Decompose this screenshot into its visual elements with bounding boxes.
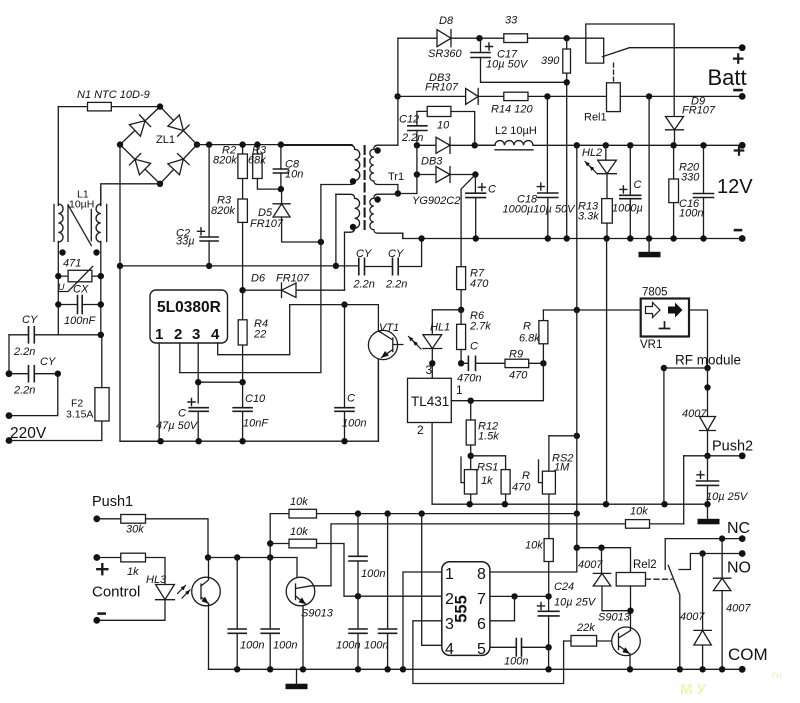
svg-text:CX: CX xyxy=(73,284,89,296)
wire 7805 input line y310 xyxy=(543,309,640,311)
LED HL1 xyxy=(432,310,461,364)
svg-text:1.5k: 1.5k xyxy=(478,431,499,443)
IC 555 box xyxy=(442,562,490,656)
svg-text:6: 6 xyxy=(477,616,486,633)
svg-text:ru: ru xyxy=(772,670,782,681)
node C100n rail xyxy=(341,438,347,444)
7805 gnd mark xyxy=(660,322,670,329)
node 390 top xyxy=(564,35,570,41)
wire S9013-2 emitter xyxy=(629,654,631,670)
svg-text:Rel2: Rel2 xyxy=(633,559,657,571)
node cap2 top xyxy=(267,554,273,560)
svg-text:470: 470 xyxy=(470,278,489,290)
node DB3 lower cathode xyxy=(472,171,478,177)
node pin1 rail xyxy=(157,438,163,444)
svg-text:4007: 4007 xyxy=(680,611,705,623)
inductor L1 left winding xyxy=(58,204,63,242)
svg-text:R9: R9 xyxy=(509,349,523,361)
wire Push2 line xyxy=(684,455,743,457)
capacitor 100n pin5 xyxy=(516,639,521,656)
transistor S9013 (first) xyxy=(286,577,315,606)
wire secondary top lead up to D8 xyxy=(397,38,399,145)
wire x577 to Rel2 branch xyxy=(576,514,578,548)
svg-text:FR107: FR107 xyxy=(276,273,310,285)
svg-text:Batt: Batt xyxy=(708,65,747,90)
diode D5 FR107 xyxy=(273,204,290,217)
svg-text:10: 10 xyxy=(437,120,450,132)
svg-text:C12: C12 xyxy=(399,114,419,126)
wire L1 right bottom down xyxy=(100,241,102,334)
wire Push2 riser to 10k xyxy=(683,456,685,524)
node R20 bottom xyxy=(670,235,676,241)
primary bottom lead xyxy=(321,181,355,185)
node cap3 gnd xyxy=(355,666,361,672)
svg-text:S9013: S9013 xyxy=(301,608,334,620)
svg-text:6.8k: 6.8k xyxy=(519,333,540,345)
wire 12V- rail xyxy=(403,233,422,238)
wire Rel1 arm to Batt+ xyxy=(602,48,742,57)
svg-text:C18: C18 xyxy=(517,194,538,206)
wire 10k line-2 y524 to S9013 collector xyxy=(331,524,626,586)
relay Rel1 contact assembly xyxy=(586,24,674,63)
wire 555 pin7 line xyxy=(491,595,549,597)
wire 555 pin5 line xyxy=(491,646,549,648)
svg-text:3.3k: 3.3k xyxy=(578,211,599,223)
capacitor 100n (no.1) xyxy=(236,558,238,670)
plus Batt xyxy=(734,54,742,62)
svg-text:68k: 68k xyxy=(248,155,266,167)
node R7 bottom xyxy=(458,307,464,313)
bridge diode bottom-right xyxy=(168,154,189,175)
node CY1 right on CX column xyxy=(98,332,104,338)
svg-text:1k: 1k xyxy=(127,566,139,578)
resistor 390 xyxy=(563,49,571,73)
node C16 bottom xyxy=(700,235,706,241)
transistor S9013 (second) xyxy=(612,627,641,656)
wire base drive line y557 xyxy=(208,558,297,584)
svg-text:5: 5 xyxy=(477,641,486,658)
capacitor 100n (no.4) xyxy=(387,514,389,670)
svg-text:100n: 100n xyxy=(273,640,297,652)
capacitor 100n (no.3) xyxy=(357,596,359,669)
node C1000u top xyxy=(627,142,633,148)
diode 4007 (NC protection) xyxy=(721,539,723,670)
node varistor right xyxy=(98,273,104,279)
terminal COM xyxy=(739,666,746,673)
phase dot L1 left xyxy=(59,249,65,255)
wire bridge left vertex down to main rail xyxy=(119,145,121,266)
node pin1 gnd xyxy=(400,666,406,672)
svg-text:CY: CY xyxy=(388,248,404,260)
svg-text:390: 390 xyxy=(541,55,560,67)
svg-text:3.15A: 3.15A xyxy=(66,409,93,421)
svg-text:C: C xyxy=(488,184,496,196)
svg-text:33: 33 xyxy=(505,15,518,27)
wire pin4 to aux line xyxy=(218,305,290,355)
capacitor 10u 25V (Push2) xyxy=(707,456,709,504)
resistor 10k (Push1 pullup) xyxy=(270,513,577,515)
resistor R14 120 xyxy=(504,92,528,100)
terminal NO xyxy=(739,550,746,557)
svg-text:2.2n: 2.2n xyxy=(385,279,407,291)
svg-text:22k: 22k xyxy=(576,622,595,634)
svg-text:HL2: HL2 xyxy=(582,147,602,159)
capacitor CX 100nF xyxy=(58,304,101,306)
7805 output arrow (filled) xyxy=(668,303,683,318)
HL3 arrows xyxy=(178,586,186,594)
svg-text:10k: 10k xyxy=(525,540,543,552)
node push2 cap bottom xyxy=(704,501,710,507)
L1 core bar left xyxy=(53,204,55,241)
svg-text:100n: 100n xyxy=(679,208,703,220)
node Push2 xyxy=(704,453,710,459)
node cap1 top xyxy=(234,554,240,560)
bridge rectifier ZL1 arms xyxy=(120,107,197,184)
svg-text:10µ 25V: 10µ 25V xyxy=(554,597,597,609)
wire x606 12V- to logic common xyxy=(606,239,608,505)
node RS2 tap on x577 xyxy=(574,433,580,439)
diode DB3 upper (secondary rectifier) xyxy=(417,144,495,146)
node D5/primary/pin2 junction xyxy=(318,239,324,245)
node DB3 upper anode xyxy=(414,142,420,148)
node x387 top xyxy=(384,510,390,516)
svg-text:Tr1: Tr1 xyxy=(388,171,404,183)
capacitor CY 2.2n (right of pair) xyxy=(393,258,399,274)
svg-text:10nF: 10nF xyxy=(243,418,269,430)
wire 555 pin3 output xyxy=(413,621,564,684)
svg-text:10k: 10k xyxy=(630,506,648,518)
node x577 on 7805 input xyxy=(574,307,580,313)
node aux lead on rail xyxy=(333,263,339,269)
capacitor C12 2.2n xyxy=(417,111,427,145)
node cap4 gnd xyxy=(384,666,390,672)
transformer secondary top winding (right) xyxy=(374,145,398,149)
svg-text:220V: 220V xyxy=(10,425,47,442)
node rail left end xyxy=(117,263,123,269)
ground symbol (12V- rail) xyxy=(648,239,650,252)
svg-text:4007: 4007 xyxy=(726,603,751,615)
svg-text:DB3: DB3 xyxy=(421,156,443,168)
svg-text:10µH: 10µH xyxy=(69,199,94,211)
svg-text:М У: М У xyxy=(680,681,707,698)
ground symbol (bottom) xyxy=(296,669,298,683)
capacitor C 1000u (12V) xyxy=(629,145,631,238)
svg-text:1: 1 xyxy=(155,326,163,343)
svg-text:FR107: FR107 xyxy=(425,82,459,94)
node C8 top xyxy=(278,141,284,147)
ground rail (COM) bottom xyxy=(209,668,743,670)
resistor R2 820k xyxy=(242,145,244,199)
node cap2 gnd xyxy=(267,666,273,672)
transformer Tr1 core dashed line xyxy=(364,146,366,234)
node bridge top vertex xyxy=(157,103,163,109)
node bridge bottom vertex xyxy=(157,181,163,187)
wire fuse top to CX column xyxy=(101,335,103,388)
node DB3 lower anode xyxy=(414,171,420,177)
wire 220V C to fuse xyxy=(9,421,102,441)
node bridge left vertex xyxy=(117,141,123,147)
svg-text:3: 3 xyxy=(192,326,200,343)
phase dot secondary bottom xyxy=(374,196,380,202)
node varistor left xyxy=(55,273,61,279)
wire 7805 output xyxy=(689,310,708,368)
svg-text:D6: D6 xyxy=(251,273,266,285)
svg-text:R: R xyxy=(522,470,530,482)
inductor L2 10uH xyxy=(495,141,533,146)
node 390 bottom C17 return xyxy=(564,79,570,85)
terminal 220V line C xyxy=(6,437,13,444)
capacitor 100n (x358 mid) xyxy=(357,514,359,597)
diode 4007 (Rel2 flyback) xyxy=(602,548,631,611)
svg-text:47µ 50V: 47µ 50V xyxy=(156,420,199,432)
diode D8 SR360 xyxy=(398,37,480,39)
node CY2 right junction xyxy=(55,371,61,377)
relay Rel2 contact NO xyxy=(679,554,742,570)
svg-text:1: 1 xyxy=(456,383,463,397)
capacitor C17 10u 50V xyxy=(481,38,567,82)
capacitor C2 plates xyxy=(200,237,218,241)
capacitor C 100n (aux) xyxy=(344,232,346,441)
svg-text:COM: COM xyxy=(728,645,768,664)
node C24 top xyxy=(545,593,551,599)
svg-text:RF module: RF module xyxy=(675,353,741,368)
dashed link Rel2 xyxy=(646,578,673,580)
terminal 220V line A xyxy=(6,370,13,377)
capacitor CY 2.2n (left of pair) xyxy=(359,258,365,274)
capacitor CY 2.2n (lower) xyxy=(29,366,35,382)
svg-text:33µ: 33µ xyxy=(176,236,195,248)
node HL2 top xyxy=(603,142,609,148)
node opto collector xyxy=(205,554,211,560)
svg-text:4007: 4007 xyxy=(682,408,707,420)
resistor R 470 (divider) xyxy=(471,456,506,505)
svg-text:U: U xyxy=(58,282,65,292)
diode 4007 (NO protection) xyxy=(702,554,704,670)
node cap5 bottom xyxy=(355,593,361,599)
L1 core bar right xyxy=(106,204,108,241)
node x606 top xyxy=(603,235,609,241)
terminal 12V- xyxy=(739,235,746,242)
svg-text:1k: 1k xyxy=(481,475,493,487)
phase dot secondary top xyxy=(374,147,380,153)
svg-text:12V: 12V xyxy=(717,176,753,198)
wire left column L1 bottom to CX/CY xyxy=(57,241,59,334)
node jumper top xyxy=(419,510,425,516)
svg-text:3: 3 xyxy=(426,363,433,377)
terminal Push2 xyxy=(739,452,746,459)
svg-text:100nF: 100nF xyxy=(64,315,96,327)
minus Batt xyxy=(735,89,742,92)
node R4 bottom y382 xyxy=(239,379,245,385)
LED HL2 xyxy=(606,145,607,198)
wire 10k pullup pair left column xyxy=(269,514,271,558)
relay coil Rel1 xyxy=(607,83,621,112)
capacitor CX plates xyxy=(78,296,83,314)
node pin6 tie xyxy=(511,593,517,599)
node cap5 top xyxy=(355,510,361,516)
svg-text:CY: CY xyxy=(40,356,56,368)
wire 220V B to CY2 right xyxy=(9,374,58,416)
node C1000u bottom xyxy=(627,235,633,241)
svg-text:CY: CY xyxy=(356,248,372,260)
resistor R20 330 xyxy=(673,145,675,238)
svg-text:820k: 820k xyxy=(213,155,237,167)
node RF line left xyxy=(661,365,667,371)
minus 12V xyxy=(735,229,741,232)
wire RF gnd to rail xyxy=(663,368,665,504)
svg-text:1000µ10µ 50V: 1000µ10µ 50V xyxy=(503,204,577,216)
node arm gnd xyxy=(677,666,683,672)
RS1 wiper tap xyxy=(461,457,464,483)
node RS1 bottom rail xyxy=(467,501,473,507)
voltage regulator VR1 7805 xyxy=(641,299,689,337)
node CX left xyxy=(55,301,61,307)
node cap1 gnd xyxy=(234,666,240,672)
capacitor C 470n xyxy=(461,362,505,364)
svg-text:100n: 100n xyxy=(240,640,264,652)
node S9013-2 emitter gnd xyxy=(627,666,633,672)
svg-text:4: 4 xyxy=(445,641,454,658)
node ground stub xyxy=(646,235,652,241)
wire 555 pin6 loop xyxy=(491,596,515,620)
7805 input arrow (hollow) xyxy=(646,303,661,318)
varistor diagonal stroke xyxy=(58,266,92,291)
wire left column x58 NTC to L1 xyxy=(57,107,59,206)
wire right column bridge to L1 right xyxy=(100,187,102,206)
svg-text:TL431: TL431 xyxy=(411,394,449,409)
node R470 bottom rail xyxy=(502,501,508,507)
wire 555 pin4 riser xyxy=(422,524,442,645)
phase dot L1 right xyxy=(93,249,99,255)
ground symbol (logic common) xyxy=(707,504,709,519)
node 4007 rel2 top xyxy=(598,545,604,551)
node C17 top xyxy=(476,35,482,41)
wire pin3 down xyxy=(197,343,199,403)
resistor body N1 xyxy=(88,102,112,111)
wire secondary top bottom-lead jog to y194 line xyxy=(398,193,417,195)
svg-text:YG902C2: YG902C2 xyxy=(412,195,460,207)
wire pin3-R4 link y382 xyxy=(198,381,242,383)
wire x649 to 12V- rail xyxy=(648,96,650,238)
terminal Push1 xyxy=(93,515,100,522)
wire x577 down to 555 pin8 xyxy=(491,548,577,572)
node pin3 y382 xyxy=(195,379,201,385)
wire anode tie vertical xyxy=(416,145,418,193)
bottom rail of converter section xyxy=(120,440,378,442)
node C18 bottom xyxy=(545,235,551,241)
wire RF module line xyxy=(664,367,708,369)
resistor R13 3.3k xyxy=(602,199,613,224)
svg-text:100n: 100n xyxy=(342,418,366,430)
svg-text:7805: 7805 xyxy=(642,287,668,299)
svg-text:FR107: FR107 xyxy=(250,218,284,230)
L2 core underline xyxy=(495,149,533,151)
wire S9013-2 collector xyxy=(630,611,632,631)
svg-text:2.2n: 2.2n xyxy=(13,346,35,358)
svg-text:470: 470 xyxy=(509,370,528,382)
resistor R3 68k xyxy=(257,145,281,190)
svg-text:VT1: VT1 xyxy=(379,322,399,334)
node 4007 right gnd xyxy=(719,666,725,672)
wire +12V column x577 (Rel2/555 feed) xyxy=(576,145,578,513)
wire jumper 513-524 xyxy=(421,514,423,524)
node bridge right vertex xyxy=(194,141,200,147)
svg-text:C10: C10 xyxy=(245,393,266,405)
trimmer RS1 1k xyxy=(470,456,472,505)
resistor R6 2.7k xyxy=(460,310,462,364)
node C18 top tap xyxy=(544,93,550,99)
diode D6 FR107 xyxy=(243,289,345,291)
node HL1/R6 bottom xyxy=(429,360,435,366)
node x649 top xyxy=(646,93,652,99)
resistor 10k (astable, vertical) xyxy=(548,562,550,597)
node R12 bottom xyxy=(468,453,474,459)
wire Batt- line xyxy=(620,95,742,97)
node RF module gnd xyxy=(661,501,667,507)
node R6 to 470n xyxy=(458,360,464,366)
node C2 top xyxy=(206,141,212,147)
svg-text:Push1: Push1 xyxy=(92,494,133,510)
plus 12V xyxy=(735,146,743,154)
phase dot aux xyxy=(350,224,356,230)
svg-text:100n: 100n xyxy=(504,656,528,668)
capacitor C10 10nF xyxy=(242,382,244,441)
transformer primary winding (left top) xyxy=(281,145,355,149)
svg-text:555: 555 xyxy=(453,595,471,623)
svg-text:10k: 10k xyxy=(290,526,308,538)
node Rel2 feed tap xyxy=(574,142,580,148)
plus Control xyxy=(97,564,107,574)
diode DB3 FR107 (top line) xyxy=(398,95,504,97)
wire Rel2 feed branch xyxy=(577,548,631,573)
svg-text:NC: NC xyxy=(727,520,750,537)
resistor R9 470 xyxy=(505,359,529,367)
svg-text:R14 120: R14 120 xyxy=(491,104,533,116)
node R20/D9 xyxy=(670,142,676,148)
resistor 30k xyxy=(97,519,208,558)
relay Rel2 arm xyxy=(668,566,680,670)
node x606 bottom xyxy=(603,501,609,507)
node 4007 left gnd xyxy=(699,666,705,672)
svg-text:R: R xyxy=(523,321,531,333)
svg-text:2: 2 xyxy=(174,326,182,343)
svg-text:D8: D8 xyxy=(439,15,454,27)
wire cathode node diagonal to R7 column xyxy=(461,175,475,267)
svg-text:22: 22 xyxy=(253,329,266,341)
diode D9 FR107 xyxy=(673,24,675,145)
svg-text:10k: 10k xyxy=(290,496,308,508)
svg-text:Push2: Push2 xyxy=(712,439,753,455)
svg-text:2.7k: 2.7k xyxy=(469,321,491,333)
thermistor N1 NTC 10D-9 xyxy=(58,106,160,108)
HL2 arrows xyxy=(585,162,593,170)
wire 220V top terminal to CY caps xyxy=(9,335,58,374)
capacitor C24 10u 25V xyxy=(548,596,550,647)
diode 4007 (Push2) xyxy=(700,417,716,431)
main primary-side rail y=266 xyxy=(120,265,359,267)
wire TL431 pin1 (ref) xyxy=(451,363,543,400)
optocoupler phototransistor (HL3) xyxy=(192,577,221,606)
svg-text:10n: 10n xyxy=(285,169,303,181)
svg-text:S9013: S9013 xyxy=(598,612,631,624)
node CX right xyxy=(98,301,104,307)
svg-text:C: C xyxy=(470,341,478,353)
capacitor C 47u 50V xyxy=(189,408,208,412)
node Rel2 coil bottom xyxy=(627,608,633,614)
svg-text:VR1: VR1 xyxy=(640,339,662,351)
transformer secondary bottom winding (right) xyxy=(374,194,398,198)
wire TL431 pin3 line xyxy=(431,363,433,378)
